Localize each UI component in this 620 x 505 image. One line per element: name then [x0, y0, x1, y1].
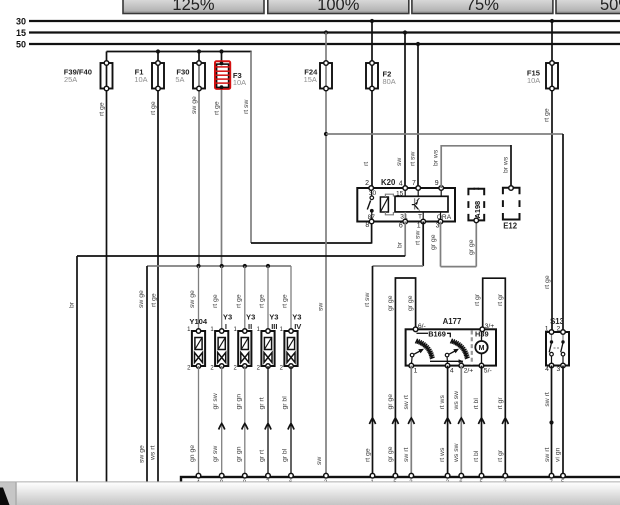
- svg-text:sw ge: sw ge: [189, 290, 196, 308]
- A177 pin 6/-: [413, 327, 418, 332]
- sensor B169 label: [417, 330, 451, 339]
- svg-text:rt ge: rt ge: [259, 294, 266, 308]
- junction F3 on rail: [219, 49, 223, 53]
- svg-text:rt ws: rt ws: [439, 447, 446, 462]
- wire sw rt from A177 pin 1: [410, 366, 412, 477]
- junction on bus 15: [403, 30, 407, 34]
- wire K20 pin 1 rt sw: [422, 222, 424, 267]
- arrow ws sw: [458, 418, 464, 424]
- wire rt ge to Y3 III pin 1: [267, 266, 269, 331]
- svg-text:30: 30: [16, 17, 26, 27]
- wire rt sw horizontal: [373, 265, 424, 267]
- wire gn ge from Y104 pin 2: [198, 366, 200, 477]
- bottom bar thumb: [0, 482, 620, 505]
- svg-text:br: br: [397, 241, 404, 248]
- svg-text:Y104: Y104: [189, 317, 208, 326]
- wire rt sw down: [372, 266, 374, 477]
- junction on sw rt wire: [549, 420, 553, 424]
- svg-text:sw rt: sw rt: [544, 392, 551, 406]
- svg-text:80A: 80A: [383, 77, 396, 86]
- svg-text:3/+: 3/+: [485, 323, 495, 330]
- arrow rt gr: [502, 418, 508, 424]
- bus bar terminal 50: [16, 40, 620, 50]
- toolbar button 100%: [268, 0, 409, 14]
- solenoid valve Y3 II: [238, 329, 251, 368]
- svg-text:rt ge: rt ge: [214, 101, 221, 115]
- K20 pin 6: [403, 219, 408, 224]
- svg-text:gr ge: gr ge: [387, 295, 394, 311]
- svg-text:III: III: [271, 322, 277, 331]
- solenoid valve Y3 III: [261, 329, 274, 368]
- control unit pin: [289, 473, 294, 478]
- arrow sw rt: [408, 418, 414, 424]
- svg-text:6: 6: [399, 223, 403, 230]
- wire vi gn from S13 pin 3: [562, 366, 564, 478]
- wire gr bl from Y3 IV pin 2: [290, 366, 292, 477]
- A198 pin: [474, 218, 479, 223]
- solenoid valve Y3 IV: [284, 329, 297, 368]
- svg-text:rt ge: rt ge: [282, 294, 289, 308]
- control unit pin: [503, 473, 508, 478]
- svg-text:sw ge: sw ge: [139, 445, 146, 463]
- svg-text:A198: A198: [473, 201, 482, 219]
- wire rt sw to K20 pin 7: [417, 44, 419, 188]
- svg-text:E12: E12: [503, 222, 518, 231]
- wire rt ge to Y3 IV pin 1: [290, 266, 292, 331]
- black corner mark: [0, 488, 10, 505]
- svg-text:1: 1: [417, 223, 421, 230]
- control unit pin: [479, 473, 484, 478]
- wire gr ge from A198: [475, 220, 477, 266]
- svg-text:rt gr: rt gr: [497, 449, 504, 462]
- svg-text:rt ws: rt ws: [439, 395, 446, 410]
- wire rt bl from A177 pin 5/-: [481, 366, 483, 477]
- wire fuse supply rail: [107, 51, 252, 53]
- svg-text:Y3: Y3: [292, 313, 301, 322]
- svg-text:Y3: Y3: [269, 313, 278, 322]
- svg-text:rt ge: rt ge: [99, 102, 106, 116]
- svg-text:5/-: 5/-: [484, 367, 492, 374]
- wire gr gn from Y3 II pin 2: [244, 366, 246, 477]
- svg-text:15: 15: [16, 28, 26, 38]
- K20 pin 4: [403, 186, 408, 191]
- fuse F24: [320, 61, 332, 91]
- svg-text:2: 2: [365, 180, 369, 187]
- svg-text:gr sw: gr sw: [212, 393, 219, 409]
- wire to S13 pin 2: [562, 134, 564, 332]
- svg-text:4: 4: [450, 367, 454, 374]
- B169 potentiometer 1: [410, 339, 434, 366]
- S13 pin 4: [549, 363, 554, 368]
- svg-text:sw: sw: [316, 457, 323, 465]
- toolbar button 125%: [123, 0, 264, 14]
- wire sw ge down left: [146, 266, 148, 482]
- svg-text:IV: IV: [294, 322, 302, 331]
- K20 internal switch contact: [367, 188, 373, 222]
- junction F2 on bus 30: [370, 19, 374, 23]
- K20 pin 7 inner stub: [417, 188, 419, 196]
- svg-text:8: 8: [365, 222, 369, 229]
- control unit pin: [393, 473, 398, 478]
- arrow on gr rt wire: [265, 424, 271, 430]
- svg-text:S13: S13: [550, 317, 565, 326]
- svg-text:Y3: Y3: [246, 313, 255, 322]
- svg-text:br: br: [69, 301, 76, 308]
- wire sw rt from S13 pin 4: [551, 366, 553, 478]
- junction Y3 I on rail: [220, 264, 224, 268]
- solenoid valve Y3 I: [215, 329, 228, 368]
- wire rt ge to Y3 I pin 1: [221, 266, 223, 331]
- arrow gr ge: [392, 418, 398, 424]
- svg-text:gr ge: gr ge: [468, 239, 475, 255]
- A177 pin 4: [445, 363, 450, 368]
- svg-text:gr ge: gr ge: [387, 446, 394, 462]
- svg-text:rt ge: rt ge: [235, 294, 242, 308]
- wire valve supply rail: [147, 265, 291, 267]
- arrow rt ws: [445, 418, 451, 424]
- fuse F30: [193, 61, 205, 91]
- svg-text:rt ge: rt ge: [365, 448, 372, 462]
- junction F1 on rail: [156, 49, 160, 53]
- control unit pin: [459, 473, 464, 478]
- control unit pin: [196, 473, 201, 478]
- svg-text:1: 1: [414, 367, 418, 374]
- svg-text:25A: 25A: [64, 75, 77, 84]
- svg-text:4: 4: [399, 181, 403, 188]
- wire rt F2 to K20 pin 2: [371, 21, 373, 188]
- solenoid valve Y104: [192, 329, 205, 368]
- K20 relay coil: [380, 194, 393, 215]
- svg-text:rt ge: rt ge: [544, 275, 551, 289]
- fuse F2: [366, 61, 378, 91]
- wire rt sw from rail: [250, 52, 252, 244]
- wire rt gr bridge to A177 pin 3/+: [483, 278, 506, 477]
- svg-text:50%: 50%: [600, 0, 620, 14]
- wire gr rt from Y3 III pin 2: [267, 366, 269, 477]
- wire rt ws from A177 pin 4: [447, 366, 449, 477]
- junction F24 on bus 15: [324, 30, 328, 34]
- bus bar terminal 30: [16, 17, 620, 27]
- arrow rt bl: [478, 418, 484, 424]
- svg-text:rt ge: rt ge: [151, 293, 158, 307]
- toolbar button 75%: [412, 0, 553, 14]
- K20 internal transistor symbol: [412, 198, 420, 210]
- svg-text:sw ge: sw ge: [138, 290, 145, 308]
- wire br down: [76, 256, 78, 482]
- toolbar button 50%: [556, 0, 620, 14]
- wire rt sw to K20 pin 8: [251, 242, 372, 244]
- K20 pin 8: [369, 219, 374, 224]
- control unit pin: [561, 473, 566, 478]
- wire gr ge bridge to A177 pin 6/-: [395, 278, 415, 477]
- svg-text:sw rt: sw rt: [403, 395, 410, 409]
- svg-text:rt sw: rt sw: [364, 293, 371, 307]
- svg-text:K20: K20: [381, 178, 396, 187]
- svg-text:9: 9: [435, 180, 439, 187]
- svg-text:15A: 15A: [304, 75, 317, 84]
- K20 pin 4 inner stub: [404, 188, 406, 196]
- svg-text:gr gn: gr gn: [235, 394, 242, 410]
- K20 pin 1 inner stub: [422, 212, 424, 222]
- svg-text:rt sw: rt sw: [410, 152, 417, 166]
- svg-text:10A: 10A: [233, 78, 246, 87]
- wire sw F24 down to control unit: [325, 33, 327, 478]
- svg-text:2/+: 2/+: [464, 367, 474, 374]
- junction on sw wire: [324, 132, 328, 136]
- svg-text:gr sw: gr sw: [212, 446, 219, 462]
- svg-text:gr ge: gr ge: [407, 295, 414, 311]
- control unit pin: [445, 473, 450, 478]
- S13 pin 2: [561, 330, 566, 335]
- svg-text:50: 50: [16, 40, 26, 50]
- wire rt ge F1: [157, 52, 159, 483]
- B169 potentiometer 2: [445, 339, 469, 366]
- K20 pin 9: [439, 186, 444, 191]
- E12 pin: [509, 186, 514, 191]
- svg-text:ws sw: ws sw: [453, 443, 460, 463]
- bus bar terminal 15: [16, 28, 620, 38]
- junction on bus 50: [416, 42, 420, 46]
- svg-text:rt gr: rt gr: [474, 293, 481, 306]
- fuse F15: [546, 61, 558, 91]
- svg-text:7: 7: [412, 180, 416, 187]
- svg-text:gr ge: gr ge: [430, 234, 437, 250]
- wire rt ge F39/F40: [106, 52, 108, 483]
- svg-text:rt ge: rt ge: [212, 294, 219, 308]
- svg-text:3: 3: [436, 223, 440, 230]
- svg-text:gr rt: gr rt: [259, 450, 266, 462]
- wire gr sw from Y3 I pin 2: [221, 366, 223, 477]
- svg-text:ws rt: ws rt: [150, 446, 157, 461]
- K20 pin 2: [369, 186, 374, 191]
- svg-text:A177: A177: [443, 317, 462, 326]
- arrow on gr sw wire: [219, 424, 225, 430]
- svg-text:B169: B169: [428, 330, 446, 339]
- svg-text:sw rt: sw rt: [544, 448, 551, 462]
- control unit pin: [324, 473, 329, 478]
- wire rt ge F15 to S13: [551, 21, 553, 332]
- svg-text:1: 1: [545, 326, 549, 333]
- A177 internal link to pin 2/+: [430, 359, 463, 365]
- control unit A198 dashed box: [468, 189, 484, 221]
- fuse F3 highlighted: [215, 61, 230, 89]
- svg-text:gr rt: gr rt: [259, 397, 266, 409]
- svg-text:5A: 5A: [175, 75, 184, 84]
- instrument unit A177 box: [406, 329, 496, 365]
- wire K20 pin 6 stub br: [404, 222, 406, 257]
- svg-text:rt ge: rt ge: [150, 101, 157, 115]
- A177 pin 3/+: [480, 327, 485, 332]
- A177 pin 1: [409, 363, 414, 368]
- K20 pin 6 inner stub: [404, 212, 406, 222]
- svg-text:Y3: Y3: [223, 313, 232, 322]
- wire rt ge to Y3 II pin 1: [244, 266, 246, 331]
- wire F30 top stub: [198, 52, 200, 64]
- svg-text:rt sw: rt sw: [415, 231, 422, 245]
- S13 internal contacts: [549, 332, 565, 366]
- S13 pin 3: [561, 363, 566, 368]
- K20 pin 3 inner stub: [440, 212, 442, 222]
- svg-text:gn ge: gn ge: [189, 445, 196, 462]
- wire br ws to E12 pin: [510, 145, 512, 188]
- control unit pin: [370, 473, 375, 478]
- wire F3 top stub: [221, 52, 223, 62]
- svg-text:gr bl: gr bl: [282, 396, 289, 410]
- svg-text:rt bl: rt bl: [473, 450, 480, 462]
- svg-text:sw ge: sw ge: [191, 96, 198, 114]
- arrow on gr gn wire: [242, 424, 248, 430]
- svg-text:ws sw: ws sw: [453, 391, 460, 411]
- control unit pin: [549, 473, 554, 478]
- fuse F39/F40: [101, 61, 113, 91]
- wire gr ge from K20 pin 3: [440, 222, 442, 267]
- control unit pin: [409, 473, 414, 478]
- junction F15 on bus 30: [550, 19, 554, 23]
- junction Y3 II on rail: [243, 264, 247, 268]
- A177 pin 2/+: [459, 363, 464, 368]
- svg-text:vi gn: vi gn: [554, 447, 561, 462]
- K20 pin 3: [438, 219, 443, 224]
- K20 pin 7: [416, 186, 421, 191]
- svg-text:4: 4: [545, 366, 549, 373]
- svg-text:sw: sw: [396, 158, 403, 166]
- wire rt ge F3 to valve rail: [221, 62, 223, 266]
- wire gray cross link: [326, 133, 563, 135]
- svg-text:gr ge: gr ge: [387, 394, 394, 410]
- control unit pin: [266, 473, 271, 478]
- wire K20 pin 8 stub: [371, 222, 373, 244]
- svg-text:rt bl: rt bl: [473, 398, 480, 410]
- wire ws sw from A177 pin 2/+: [460, 366, 462, 477]
- svg-text:gr bl: gr bl: [282, 448, 289, 462]
- svg-text:rt: rt: [363, 162, 370, 166]
- motor H39: [475, 329, 487, 365]
- svg-text:75%: 75%: [466, 0, 499, 14]
- junction Y104 on rail: [196, 264, 200, 268]
- K20 pin 9 inner stub: [440, 188, 442, 196]
- svg-text:II: II: [248, 322, 252, 331]
- svg-text:rt sw: rt sw: [243, 100, 250, 114]
- wire br horizontal: [77, 255, 405, 257]
- svg-text:sw rt: sw rt: [403, 448, 410, 462]
- svg-text:6/-: 6/-: [418, 323, 426, 330]
- svg-text:10A: 10A: [527, 76, 540, 85]
- K20 pin 1: [421, 219, 426, 224]
- switch S13 box: [546, 332, 569, 366]
- arrow on gr bl wire: [288, 424, 294, 430]
- svg-text:10A: 10A: [134, 75, 147, 84]
- wire sw to K20 pin 4: [404, 33, 406, 189]
- junction F30 on rail: [197, 49, 201, 53]
- K20 internal electronics box: [395, 196, 448, 212]
- svg-text:3: 3: [557, 366, 561, 373]
- svg-text:100%: 100%: [317, 0, 360, 14]
- A177 dashed divider: [471, 331, 473, 365]
- svg-text:125%: 125%: [172, 0, 215, 14]
- svg-text:rt gr: rt gr: [497, 397, 504, 410]
- A177 pin 5/-: [479, 363, 484, 368]
- svg-text:2: 2: [557, 326, 561, 333]
- svg-text:rt gr: rt gr: [497, 293, 504, 306]
- wire sw ge to Y104 pin 1: [198, 266, 200, 331]
- svg-text:M: M: [479, 345, 485, 352]
- arrow rt sw: [369, 418, 375, 424]
- S13 pin 1: [549, 330, 554, 335]
- glow plug E12 dashed box: [503, 188, 520, 220]
- relay K20 box: [357, 188, 455, 222]
- wire gr ge join: [441, 266, 477, 268]
- control unit pin: [243, 473, 248, 478]
- wire sw ge F30 to valve rail: [198, 63, 200, 266]
- control unit box bottom: [181, 477, 620, 505]
- svg-text:br ws: br ws: [503, 156, 510, 173]
- svg-text:gr gn: gr gn: [235, 446, 242, 462]
- wire br ws K20 pin 9 to E12: [441, 146, 511, 188]
- junction Y3 III on rail: [266, 264, 270, 268]
- control unit pin: [219, 473, 224, 478]
- svg-text:rt ge: rt ge: [544, 108, 551, 122]
- svg-text:sw: sw: [318, 303, 325, 311]
- fuse F1: [152, 61, 164, 91]
- svg-text:I: I: [225, 322, 227, 331]
- bottom scrollbar track: [0, 482, 620, 505]
- svg-text:br ws: br ws: [433, 149, 440, 166]
